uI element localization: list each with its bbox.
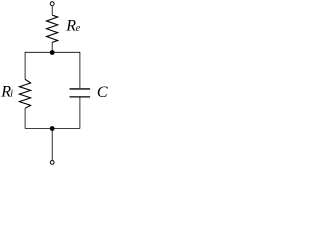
capacitor C bottom plate	[70, 96, 91, 98]
terminal T2 (bottom open circle)	[50, 161, 54, 165]
terminal T1 (top open circle)	[50, 2, 54, 6]
svg-text:e: e	[76, 23, 81, 34]
node A (junction dot, top)	[50, 50, 55, 55]
wire: top terminal to resistor Re	[51, 6, 53, 15]
svg-text:R: R	[65, 17, 76, 34]
wire: resistor Re to node A	[51, 42, 53, 52]
resistor Ri (zigzag)	[19, 79, 30, 108]
wire: node B to bottom terminal	[51, 129, 53, 161]
node B (junction dot, bottom)	[50, 126, 55, 131]
wire: capacitor C to bottom rail	[79, 98, 81, 129]
resistor Re (zigzag)	[47, 15, 58, 42]
wire: bottom horizontal rail	[25, 128, 80, 130]
svg-text:i: i	[10, 89, 13, 100]
svg-text:C: C	[97, 84, 108, 101]
capacitor C top plate	[70, 88, 91, 90]
wire: top horizontal rail	[25, 52, 80, 88]
wire: resistor Ri to bottom rail	[24, 108, 26, 128]
